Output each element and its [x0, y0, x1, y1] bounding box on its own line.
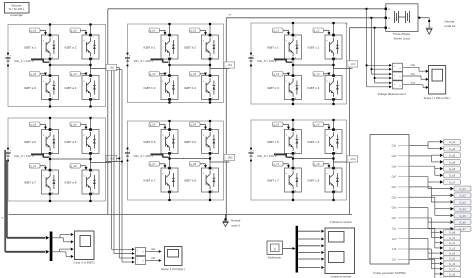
svg-text:IGBT b 1: IGBT b 1 [144, 45, 156, 49]
svg-text:Vb1: Vb1 [228, 64, 233, 67]
wire: bottom DC- rail stubs a2 [49, 194, 92, 202]
svg-text:g_b2: g_b2 [190, 29, 196, 33]
DC source Vdc a2 [5, 148, 11, 162]
svg-text:Neutral: Neutral [445, 19, 455, 23]
svg-text:g_c7: g_c7 [273, 162, 279, 166]
thick wire near source c2 [274, 154, 292, 157]
goto tag G_a2 [440, 146, 461, 151]
svg-text:Gb3: Gb3 [392, 195, 397, 199]
svg-text:IGBT c 1: IGBT c 1 [267, 45, 279, 49]
svg-text:g_b1: g_b1 [150, 29, 156, 33]
goto tag g_b4 [190, 72, 207, 77]
powergui block [5, 3, 30, 18]
node label VA2 [106, 155, 117, 161]
goto tag g_b1 [149, 28, 166, 35]
goto tag G_c1 [440, 235, 461, 240]
svg-text:Gb5: Gb5 [392, 206, 397, 210]
svg-text:Ga3: Ga3 [392, 154, 397, 158]
wire: bottom DC- rail stubs b2 [168, 192, 211, 201]
goto tag G_c3 [440, 245, 461, 250]
svg-text:Vc1: Vc1 [351, 63, 356, 66]
IGBT block c2 [325, 34, 342, 60]
svg-text:g_c8: g_c8 [314, 162, 320, 166]
H-bridge box c2 outline / DC rails [251, 120, 347, 200]
svg-text:IGBT a 8: IGBT a 8 [65, 180, 77, 184]
svg-text:G_a4: G_a4 [449, 160, 456, 164]
IGBT block a4 [82, 74, 99, 100]
svg-text:g_c3: g_c3 [273, 72, 279, 76]
scope 2 (V-bridge) [161, 247, 185, 271]
ground: neutral node 10 [426, 19, 456, 34]
svg-text:g_b8: g_b8 [190, 162, 196, 166]
goto tag G_b5 [450, 213, 471, 218]
goto tag G_a1 [440, 139, 461, 144]
svg-text:0: 0 [274, 247, 276, 251]
svg-text:Vdc_4 = 100 V: Vdc_4 = 100 V [134, 154, 154, 158]
thick wire near source c1 [274, 59, 292, 62]
wire: bottom DC- rail stubs c2 [292, 192, 335, 201]
goto tag g_c2 [313, 28, 330, 35]
IGBT block c4 [325, 74, 342, 100]
wire: multimeter to demux [283, 247, 296, 250]
IGBT block a1 [42, 34, 59, 60]
svg-text:Va1: Va1 [151, 247, 156, 251]
svg-text:IGBT b 2: IGBT b 2 [184, 45, 196, 49]
wire: bridge A1 minus down corridor [114, 71, 135, 255]
IGBT block b8 [202, 167, 219, 193]
svg-text:IGBT b 5: IGBT b 5 [144, 140, 156, 144]
IGBT block a3 [42, 74, 59, 100]
svg-text:G_b8: G_b8 [449, 231, 456, 235]
svg-text:IGBT c 5: IGBT c 5 [267, 140, 279, 144]
IGBT block a7 [42, 169, 59, 195]
svg-text:g_b5: g_b5 [150, 123, 156, 127]
pulse generator subsystem [370, 135, 409, 275]
svg-text:G_a6: G_a6 [449, 174, 456, 178]
svg-text:Ts = 5e-005 s.: Ts = 5e-005 s. [9, 7, 26, 11]
goto tag g_c8 [313, 162, 330, 169]
svg-text:IGBT c 6: IGBT c 6 [308, 140, 320, 144]
svg-text:g_c2: g_c2 [314, 29, 320, 33]
goto tag G_a6 [440, 173, 461, 178]
wire: mid rails a1 [49, 59, 112, 76]
svg-text:IGBT b 3: IGBT b 3 [144, 86, 156, 90]
voltage measurement U_Vab [393, 63, 403, 72]
thick wire near source b2 [151, 154, 169, 157]
goto tag g_c3 [273, 72, 290, 77]
svg-text:Gc3: Gc3 [392, 237, 397, 241]
goto tag G_c5 [440, 256, 461, 261]
IGBT block c8 [325, 167, 342, 193]
goto tag g_a5 [30, 122, 47, 130]
svg-text:IGBT c 4: IGBT c 4 [308, 86, 320, 90]
H-bridge box c1 outline / DC rails [251, 23, 347, 104]
IGBT block b3 [161, 74, 178, 100]
svg-text:Gb1: Gb1 [392, 185, 397, 189]
wire: top DC+ rail stubs a2 [49, 117, 92, 130]
svg-text:g_b4: g_b4 [190, 72, 196, 76]
IGBT block c6 [325, 128, 342, 154]
wire: mid rails b2 [168, 154, 229, 169]
svg-text:Three-Phase: Three-Phase [393, 32, 411, 36]
svg-text:Gc5: Gc5 [392, 247, 397, 251]
wire: mid rails c1 [292, 59, 353, 76]
svg-text:Ga1: Ga1 [392, 144, 397, 148]
wire: bridge A2 minus down corridor [106, 70, 135, 264]
svg-text:node 10: node 10 [445, 24, 456, 28]
svg-text:g_c6: g_c6 [314, 123, 320, 127]
svg-text:node 5: node 5 [231, 223, 240, 227]
wire: demux outputs to V/I scope [298, 230, 324, 269]
node label Vc1 [347, 61, 358, 67]
wire: left edge down-run to mux (thick measurement pair) [1, 150, 49, 254]
svg-text:IGBT b 4: IGBT b 4 [184, 86, 196, 90]
IGBT block c1 [285, 34, 302, 60]
wire: mid rails b1 [168, 59, 229, 76]
wire: top DC+ rail stubs c2 [292, 119, 335, 130]
node label Vb1 [224, 62, 235, 68]
goto tag g_c5 [273, 122, 290, 130]
wire: neutral bus [9, 213, 353, 215]
H-bridge box b2 outline / DC rails [128, 121, 224, 200]
svg-text:G_c6: G_c6 [449, 262, 456, 266]
multimeter block [267, 241, 283, 259]
wire: Vd1 to scope2 [146, 256, 162, 262]
IGBT block c3 [285, 74, 302, 100]
goto tag G_b3 [450, 200, 471, 205]
svg-text:G_c2: G_c2 [449, 241, 456, 245]
svg-text:G_a7: G_a7 [449, 180, 456, 184]
svg-text:Vab: Vab [411, 63, 416, 67]
svg-text:g_a3: g_a3 [30, 72, 36, 76]
goto tag G_c4 [440, 251, 461, 256]
H-bridge box a2 outline / DC rails [8, 118, 106, 201]
svg-text:Vd1: Vd1 [151, 256, 156, 260]
IGBT block b4 [202, 74, 219, 100]
svg-text:IGBT b 7: IGBT b 7 [144, 178, 156, 182]
IGBT block c5 [285, 128, 302, 154]
Three-Phase Series RLC Load block [385, 4, 418, 41]
wire: mid rails c2 [292, 154, 353, 169]
IGBT block b6 [202, 128, 219, 154]
IGBT block b5 [161, 128, 178, 154]
svg-text:VB2: VB2 [228, 157, 233, 160]
svg-text:g_a4: g_a4 [71, 72, 77, 76]
svg-text:Discrete,: Discrete, [11, 3, 22, 7]
IGBT block b7 [161, 167, 178, 193]
IGBT block a8 [82, 169, 99, 195]
svg-text:g_a6: g_a6 [71, 123, 77, 127]
wire: Vab to scope [403, 63, 429, 73]
svg-text:IGBT c 2: IGBT c 2 [308, 45, 320, 49]
svg-text:g_c5: g_c5 [273, 123, 279, 127]
DC source Vdc c1 [248, 53, 254, 67]
wire: phase C output to load input C [345, 22, 386, 214]
voltage measurement U_Vbc [393, 72, 403, 81]
pulse generator output port labels [392, 144, 409, 262]
svg-text:G_c3: G_c3 [449, 246, 456, 250]
svg-text:Ga7: Ga7 [392, 175, 397, 179]
goto tag G_b1 [450, 186, 471, 191]
wire: mid rails a2 [49, 154, 112, 171]
wire: bottom DC- rail stubs a1 [49, 100, 92, 108]
goto tag g_c1 [273, 28, 290, 35]
wire: Vbc to scope [403, 72, 429, 81]
goto tag g_b3 [149, 72, 166, 77]
IGBT block c7 [285, 167, 302, 193]
svg-text:Multimeter: Multimeter [268, 255, 281, 259]
H-bridge box a1 outline / DC rails [8, 25, 106, 107]
svg-text:Ga5: Ga5 [392, 164, 397, 168]
node label Va1 [106, 64, 117, 70]
svg-text:C: C [388, 27, 390, 30]
svg-text:G_c5: G_c5 [449, 257, 456, 261]
svg-text:g_c1: g_c1 [273, 29, 279, 33]
goto tag G_c7 [440, 266, 461, 271]
svg-text:IGBT c 7: IGBT c 7 [267, 178, 279, 182]
wire: top DC+ rail stubs b2 [168, 120, 211, 130]
goto tag G_a7 [440, 180, 461, 185]
svg-text:g_b3: g_b3 [150, 72, 156, 76]
goto tag g_b7 [149, 162, 166, 169]
svg-text:Vdc_5 = 100 V: Vdc_5 = 100 V [257, 59, 277, 63]
wire: VM taps from phase wires [366, 8, 392, 88]
mux (bottom-left) [50, 232, 53, 262]
goto tag g_c4 [313, 72, 330, 77]
svg-text:Vca: Vca [411, 81, 416, 85]
goto tag G_a4 [440, 159, 461, 164]
wires: pulse outputs to goto tags [409, 142, 450, 278]
IGBT block a5 [42, 128, 59, 154]
goto tag g_b6 [190, 122, 207, 130]
svg-text:Scope ( 1 Vab to Vbc ): Scope ( 1 Vab to Vbc ) [424, 96, 451, 100]
node label VB2 [224, 154, 235, 160]
svg-text:IGBT a 2: IGBT a 2 [65, 45, 77, 49]
goto tag G_a5 [440, 166, 461, 171]
wire: top DC+ rail stubs b1 [168, 23, 211, 35]
wire: bridge A1 output down corridor [112, 71, 135, 251]
svg-text:IGBT c 8: IGBT c 8 [308, 178, 320, 182]
svg-text:Vdc_6 = 100 V: Vdc_6 = 100 V [257, 154, 277, 158]
wire: phase B output to load input B [226, 12, 385, 220]
svg-text:Vdc_2 = 100 V: Vdc_2 = 100 V [14, 154, 34, 158]
goto tag G_b2 [450, 193, 471, 198]
svg-text:G_b3: G_b3 [459, 200, 466, 204]
goto tag g_b2 [190, 28, 207, 35]
svg-text:G_c8: G_c8 [449, 272, 456, 276]
goto tag G_b4 [450, 206, 471, 211]
goto tag G_a8 [440, 277, 461, 278]
svg-text:IGBT a 6: IGBT a 6 [65, 140, 77, 144]
wire: Va1 to scope2 [146, 247, 162, 253]
svg-text:1 and V of IGBT1: 1 and V of IGBT1 [73, 260, 95, 264]
svg-text:Voltage Measurement: Voltage Measurement [377, 92, 405, 96]
svg-text:g_b7: g_b7 [150, 162, 156, 166]
svg-text:G_c1: G_c1 [449, 236, 456, 240]
svg-text:Series Load: Series Load [393, 37, 409, 41]
svg-text:G_b6: G_b6 [459, 221, 466, 225]
wire: load output to neutral [418, 17, 430, 28]
svg-text:Scope 2 (V-bridge ): Scope 2 (V-bridge ) [161, 267, 185, 271]
svg-text:g_a2: g_a2 [71, 29, 77, 33]
goto tag g_b5 [149, 122, 166, 130]
wire: top DC+ rail stubs a1 [49, 23, 92, 35]
goto tag G_a3 [440, 153, 461, 158]
svg-text:IGBT c 3: IGBT c 3 [267, 86, 279, 90]
svg-text:g_a5: g_a5 [30, 123, 36, 127]
scope I and V of IGBT [73, 231, 95, 264]
goto tag G_b7 [450, 226, 471, 231]
DC source Vdc b2 [125, 148, 131, 162]
demux (V and I signals) [296, 226, 298, 273]
ground: neutral node mid [223, 214, 241, 227]
IGBT block a6 [82, 128, 99, 154]
thick wire near source a2 [31, 154, 49, 157]
IGBT block b1 [161, 34, 178, 60]
svg-text:IGBT a 1: IGBT a 1 [24, 45, 36, 49]
thick wire near source a1 [31, 59, 49, 62]
scope V and I phase to neutral [325, 220, 355, 278]
goto tag G_b8 [440, 230, 461, 235]
svg-text:g_a1: g_a1 [30, 29, 36, 33]
svg-text:G_a1: G_a1 [449, 140, 456, 144]
svg-text:IGBT a 7: IGBT a 7 [24, 180, 36, 184]
goto tag G_c6 [440, 261, 461, 266]
svg-text:g_a7: g_a7 [30, 164, 36, 168]
H-bridge box b1 outline / DC rails [128, 24, 224, 103]
svg-text:Pulses generator THIPWM: Pulses generator THIPWM [374, 271, 407, 275]
svg-text:G_b1: G_b1 [459, 187, 466, 191]
goto tag g_a4 [70, 72, 87, 77]
goto tag g_b8 [190, 162, 207, 169]
wire: Vca to scope [403, 81, 429, 89]
wire: mux to scope1 fan [52, 233, 73, 258]
goto tag G_b6 [450, 220, 471, 225]
goto tag g_a3 [30, 72, 47, 77]
goto tag g_a2 [70, 28, 87, 35]
goto tag g_a7 [30, 164, 47, 171]
voltage measurement U_a (bridge A1) [136, 248, 146, 256]
svg-text:g_c4: g_c4 [314, 72, 320, 76]
goto tag g_a1 [30, 28, 47, 35]
svg-text:IGBT b 8: IGBT b 8 [184, 178, 196, 182]
svg-text:IGBT a 4: IGBT a 4 [65, 86, 77, 90]
svg-text:G_b5: G_b5 [459, 214, 466, 218]
svg-text:IGBT a 5: IGBT a 5 [24, 140, 36, 144]
IGBT block a2 [82, 34, 99, 60]
svg-text:IGBT b 6: IGBT b 6 [184, 140, 196, 144]
svg-text:G_a3: G_a3 [449, 154, 456, 158]
voltage measurement U_b (bridge A2) [136, 257, 146, 265]
svg-text:Gc1: Gc1 [392, 226, 397, 230]
goto tag G_c2 [440, 240, 461, 245]
svg-text:G_c7: G_c7 [449, 267, 456, 271]
svg-text:Neutral: Neutral [231, 219, 241, 223]
wire: top DC+ rail stubs c1 [292, 22, 335, 35]
svg-text:G_c4: G_c4 [449, 252, 456, 256]
DC source Vdc a1 [5, 53, 11, 67]
DC source Vdc b1 [125, 53, 131, 67]
svg-text:g_b6: g_b6 [190, 123, 196, 127]
svg-text:Vdc_3 = 100 V: Vdc_3 = 100 V [134, 59, 154, 63]
svg-text:G_b2: G_b2 [459, 194, 466, 198]
svg-text:Va1: Va1 [110, 67, 115, 70]
svg-text:Vdc_1 = 100 V: Vdc_1 = 100 V [14, 59, 34, 63]
svg-text:G_a2: G_a2 [449, 147, 456, 151]
wire: phase A output to load input A [108, 9, 386, 215]
svg-text:Vbc: Vbc [411, 72, 416, 76]
node label VC2 [347, 156, 358, 162]
thick wire near source b1 [151, 59, 169, 62]
goto tag g_c6 [313, 122, 330, 130]
svg-text:Gc7: Gc7 [392, 257, 397, 261]
DC source Vdc c2 [248, 148, 254, 162]
svg-text:I phase to neutral: I phase to neutral [330, 274, 351, 278]
svg-text:g_a8: g_a8 [71, 164, 77, 168]
svg-text:powergui: powergui [10, 13, 23, 17]
wire: bridge A2 output down corridor [116, 67, 134, 259]
svg-text:Gb7: Gb7 [392, 216, 397, 220]
svg-text:V phase to neutral: V phase to neutral [330, 220, 352, 224]
svg-text:G_b4: G_b4 [459, 207, 466, 211]
goto tag g_a6 [70, 122, 87, 130]
goto tag g_c7 [273, 162, 290, 169]
goto tag g_a8 [70, 164, 87, 171]
svg-text:G_a5: G_a5 [449, 167, 456, 171]
svg-text:VC2: VC2 [351, 158, 356, 161]
wire: bottom DC- rail stubs c1 [292, 100, 335, 106]
IGBT block b2 [202, 34, 219, 60]
voltage measurement U_Vca [393, 81, 403, 90]
goto tag G_c8 [440, 271, 461, 276]
svg-text:IGBT a 3: IGBT a 3 [24, 86, 36, 90]
scope Vab Vbc Vca [424, 66, 451, 100]
wire: bottom DC- rail stubs b1 [168, 100, 211, 104]
